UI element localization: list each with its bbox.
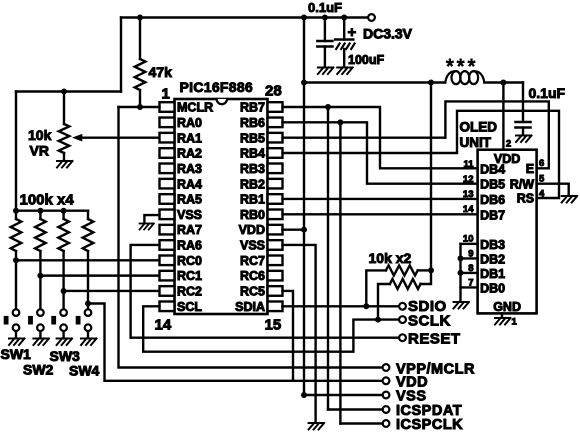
svg-text:RA0: RA0 [177, 116, 202, 130]
svg-text:RB0: RB0 [240, 208, 265, 222]
svg-text:RB5: RB5 [240, 131, 265, 145]
svg-text:13: 13 [463, 189, 474, 200]
svg-text:SCLK: SCLK [408, 313, 451, 330]
svg-text:10k x2: 10k x2 [369, 250, 412, 266]
svg-text:1: 1 [512, 317, 518, 328]
svg-text:VSS: VSS [177, 208, 202, 222]
svg-text:DB2: DB2 [480, 252, 505, 266]
svg-text:VDD: VDD [239, 223, 265, 237]
svg-text:DB4: DB4 [480, 162, 505, 176]
svg-text:RB3: RB3 [240, 162, 265, 176]
svg-text:11: 11 [463, 159, 474, 170]
svg-text:ICSPCLK: ICSPCLK [396, 417, 463, 433]
svg-text:RB6: RB6 [240, 116, 265, 130]
svg-text:RC5: RC5 [240, 285, 265, 299]
svg-text:RC7: RC7 [240, 254, 265, 268]
svg-text:6: 6 [539, 158, 544, 169]
svg-text:14: 14 [155, 317, 172, 334]
svg-text:RESET: RESET [408, 331, 461, 348]
svg-text:RS: RS [517, 192, 534, 206]
svg-text:DB0: DB0 [480, 281, 505, 295]
svg-text:47k: 47k [149, 64, 173, 80]
svg-text:SW4: SW4 [69, 363, 100, 379]
svg-text:RB2: RB2 [240, 177, 265, 191]
svg-text:DB1: DB1 [480, 267, 505, 281]
svg-text:GND: GND [493, 300, 521, 314]
svg-text:SW1: SW1 [1, 346, 32, 362]
svg-text:RA3: RA3 [177, 162, 202, 176]
svg-text:DB5: DB5 [480, 178, 505, 192]
svg-text:R/W: R/W [510, 177, 535, 191]
svg-text:VSS: VSS [240, 239, 265, 253]
svg-text:0.1uF: 0.1uF [529, 85, 566, 101]
svg-text:RA1: RA1 [177, 131, 202, 145]
svg-text:RC0: RC0 [177, 254, 202, 268]
svg-text:DB6: DB6 [480, 193, 505, 207]
svg-text:RA6: RA6 [177, 239, 202, 253]
svg-text:VR: VR [30, 143, 49, 159]
svg-text:MCLR: MCLR [177, 101, 213, 115]
svg-text:E: E [526, 162, 534, 176]
svg-text:0.1uF: 0.1uF [308, 0, 342, 15]
svg-text:RA4: RA4 [177, 177, 202, 191]
svg-text:DB7: DB7 [480, 208, 505, 222]
svg-text:DB3: DB3 [480, 238, 505, 252]
svg-text:100uF: 100uF [348, 53, 384, 67]
svg-text:SDIA: SDIA [235, 300, 265, 314]
svg-text:1: 1 [162, 86, 170, 103]
svg-text:PIC16F886: PIC16F886 [180, 79, 254, 95]
svg-text:SCL: SCL [177, 300, 202, 314]
svg-text:***: *** [446, 56, 478, 78]
svg-text:2: 2 [506, 139, 511, 150]
svg-text:RC6: RC6 [240, 269, 265, 283]
svg-text:UNIT: UNIT [460, 135, 492, 150]
svg-text:12: 12 [463, 174, 474, 185]
svg-text:RB7: RB7 [240, 101, 265, 115]
svg-text:14: 14 [463, 204, 474, 215]
svg-text:15: 15 [265, 317, 282, 334]
svg-text:RC2: RC2 [177, 285, 202, 299]
svg-text:4: 4 [539, 189, 545, 200]
svg-text:10k: 10k [28, 127, 52, 143]
svg-text:RB4: RB4 [240, 147, 265, 161]
svg-text:DC3.3V: DC3.3V [363, 26, 413, 42]
svg-text:RA5: RA5 [177, 193, 202, 207]
svg-text:100k x4: 100k x4 [20, 192, 75, 209]
svg-text:RB1: RB1 [240, 193, 265, 207]
svg-text:28: 28 [265, 83, 282, 100]
svg-text:RA7: RA7 [177, 223, 202, 237]
svg-text:OLED: OLED [460, 120, 498, 135]
svg-text:RC1: RC1 [177, 269, 202, 283]
svg-text:RA2: RA2 [177, 147, 202, 161]
